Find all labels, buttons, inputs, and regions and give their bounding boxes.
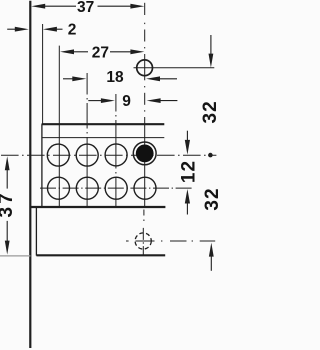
hole row2 col2 [76, 177, 98, 199]
plate top edge (thick) [42, 123, 165, 125]
plate top inner line [42, 137, 165, 139]
extension line bottom-left (gray) [0, 255, 31, 257]
dimension 2: left arrow (outside, pointing right) [7, 28, 15, 30]
svg-text:32: 32 [202, 187, 218, 210]
svg-text:12: 12 [178, 160, 199, 183]
dimension 9: right arrow [147, 98, 161, 103]
dimension 32 lower: bottom arrow pointing up [209, 243, 214, 257]
hole row1 col1 [47, 144, 69, 166]
svg-text:32: 32 [200, 100, 218, 123]
row 2 centerline [40, 187, 193, 189]
top hole horizontal centerline / reference line [134, 67, 215, 69]
column 2 centerline [86, 73, 88, 207]
hole row1 col4 filled: black disc [136, 145, 154, 163]
dimension 37 left vertical: top arrow pointing up [5, 156, 10, 170]
dashed circle vertical centerline [142, 228, 144, 255]
dimension 37 top: right arrowhead [130, 4, 144, 9]
plate bottom edge (thick) [31, 206, 166, 208]
dimension 37 left: bottom arrow pointing down [6, 221, 8, 241]
dimension 37 top: line [44, 5, 76, 7]
hole row2 col1 [48, 177, 70, 199]
svg-text:37: 37 [0, 190, 17, 217]
svg-text:18: 18 [106, 69, 124, 86]
lower box bottom edge (thick) [36, 254, 165, 256]
column 1 centerline [58, 46, 60, 207]
dashed circle (hidden hole) [135, 233, 151, 249]
svg-text:37: 37 [77, 0, 94, 16]
svg-text:2: 2 [68, 21, 77, 38]
hole row1 col4 filled: outer ring [133, 142, 156, 165]
top hole (drill-in) circle [137, 60, 153, 76]
dimension 37 top: left arrowhead [31, 4, 45, 9]
lower box left edge [35, 207, 37, 256]
hole row1 col3 [105, 144, 127, 166]
dimension 27: line+arrows [60, 49, 74, 54]
dimension 32 upper: top arrow pointing down [210, 35, 212, 56]
dimension 2: right arrow (outside, pointing left) [43, 27, 57, 32]
dashed circle horizontal centerline [126, 240, 215, 242]
svg-text:27: 27 [92, 44, 109, 61]
dimension 18: left arrow [63, 78, 73, 80]
dimension 2: extension line (plate edge extended) [42, 24, 44, 124]
dimension 9: left arrow [88, 100, 101, 102]
plate left edge [41, 124, 43, 207]
dimension 18: right arrow [146, 76, 160, 81]
panel edge main vertical line [29, 1, 31, 348]
hole row2 col4 [134, 177, 156, 199]
dimension 12: top arrow pointing down [186, 131, 188, 141]
hole row2 col3 [105, 177, 127, 199]
svg-text:9: 9 [122, 93, 131, 110]
dimension 32 upper: dot termination at row1 [208, 153, 213, 158]
column 4 centerline [143, 3, 146, 221]
row 1 centerline [1, 154, 216, 156]
dimension 12: bottom arrow pointing up [185, 189, 190, 204]
hole row1 col2 [76, 144, 98, 166]
column 3 centerline [115, 94, 117, 207]
